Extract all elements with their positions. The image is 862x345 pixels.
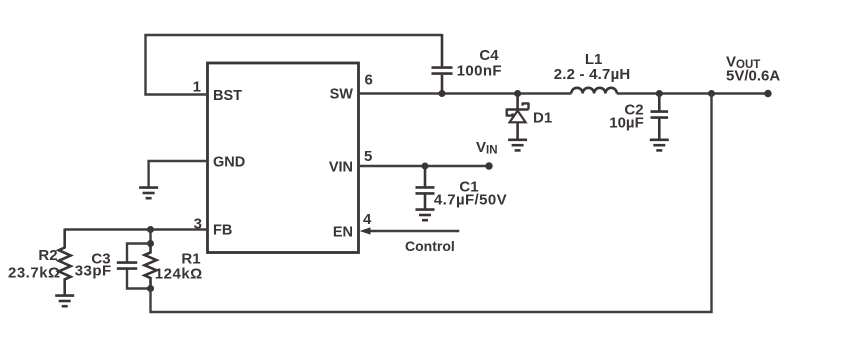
node R1/C3 bottom junction	[147, 285, 154, 292]
svg-text:100nF: 100nF	[457, 63, 502, 80]
IC regulator body U1	[208, 63, 359, 253]
svg-text:5V/0.6A: 5V/0.6A	[726, 68, 780, 85]
svg-text:6: 6	[365, 72, 373, 89]
wire C3 bottom bracket	[127, 269, 151, 288]
capacitor C1	[416, 166, 435, 209]
resistor R1	[145, 244, 157, 289]
svg-text:FB: FB	[213, 223, 232, 239]
wire BST bootstrap loop	[146, 35, 443, 95]
capacitor C2	[651, 94, 669, 140]
node SW/C4 junction	[439, 90, 446, 97]
capacitor C3	[117, 263, 137, 269]
inductor L1	[571, 88, 617, 94]
svg-text:3: 3	[194, 216, 202, 233]
svg-text:5: 5	[364, 148, 372, 165]
ground C2	[650, 140, 669, 151]
svg-text:33pF: 33pF	[75, 263, 112, 280]
svg-text:GND: GND	[213, 155, 245, 171]
wire SW line	[359, 92, 572, 94]
wire L1 to VOUT terminal	[617, 92, 768, 94]
EN arrowhead	[360, 227, 371, 234]
diode D1 Schottky	[507, 94, 529, 140]
svg-text:BST: BST	[213, 88, 242, 104]
svg-text:4: 4	[363, 211, 372, 228]
wire feedback bottom to VOUT	[151, 94, 712, 313]
svg-text:2.2 - 4.7µH: 2.2 - 4.7µH	[554, 66, 631, 83]
svg-text:EN: EN	[333, 225, 353, 241]
node FB junction	[147, 226, 154, 233]
svg-text:R2: R2	[38, 247, 57, 264]
node R1/C3 top junction	[147, 240, 154, 247]
svg-text:C4: C4	[479, 47, 499, 64]
node C1 junction	[422, 163, 429, 170]
node VOUT feedback junction	[708, 90, 715, 97]
ground C1	[416, 210, 435, 221]
wire EN control	[369, 230, 460, 232]
svg-text:D1: D1	[533, 110, 552, 127]
svg-text:124kΩ: 124kΩ	[155, 266, 203, 283]
VIN terminal dot	[485, 162, 492, 169]
ground D1	[508, 140, 527, 151]
wire VIN line	[359, 165, 490, 167]
wire FB line	[65, 228, 208, 230]
svg-text:23.7kΩ: 23.7kΩ	[8, 265, 61, 282]
svg-text:VIN: VIN	[476, 139, 498, 157]
capacitor C4	[432, 34, 453, 95]
svg-text:SW: SW	[330, 87, 354, 103]
wire GND pin to ground	[149, 161, 208, 187]
node D1 junction	[514, 90, 521, 97]
svg-text:Control: Control	[405, 238, 455, 254]
ground GND pin	[139, 188, 158, 199]
svg-text:1: 1	[193, 79, 201, 96]
resistor R2	[59, 229, 71, 295]
ground R2	[55, 296, 74, 307]
node C2 junction	[656, 90, 663, 97]
wire C3 top bracket	[127, 244, 151, 262]
svg-text:4.7µF/50V: 4.7µF/50V	[434, 192, 507, 209]
svg-text:10µF: 10µF	[609, 115, 644, 132]
svg-text:VIN: VIN	[329, 160, 353, 176]
VOUT terminal dot	[764, 90, 771, 97]
wire FB node to R1/C3	[149, 230, 151, 244]
